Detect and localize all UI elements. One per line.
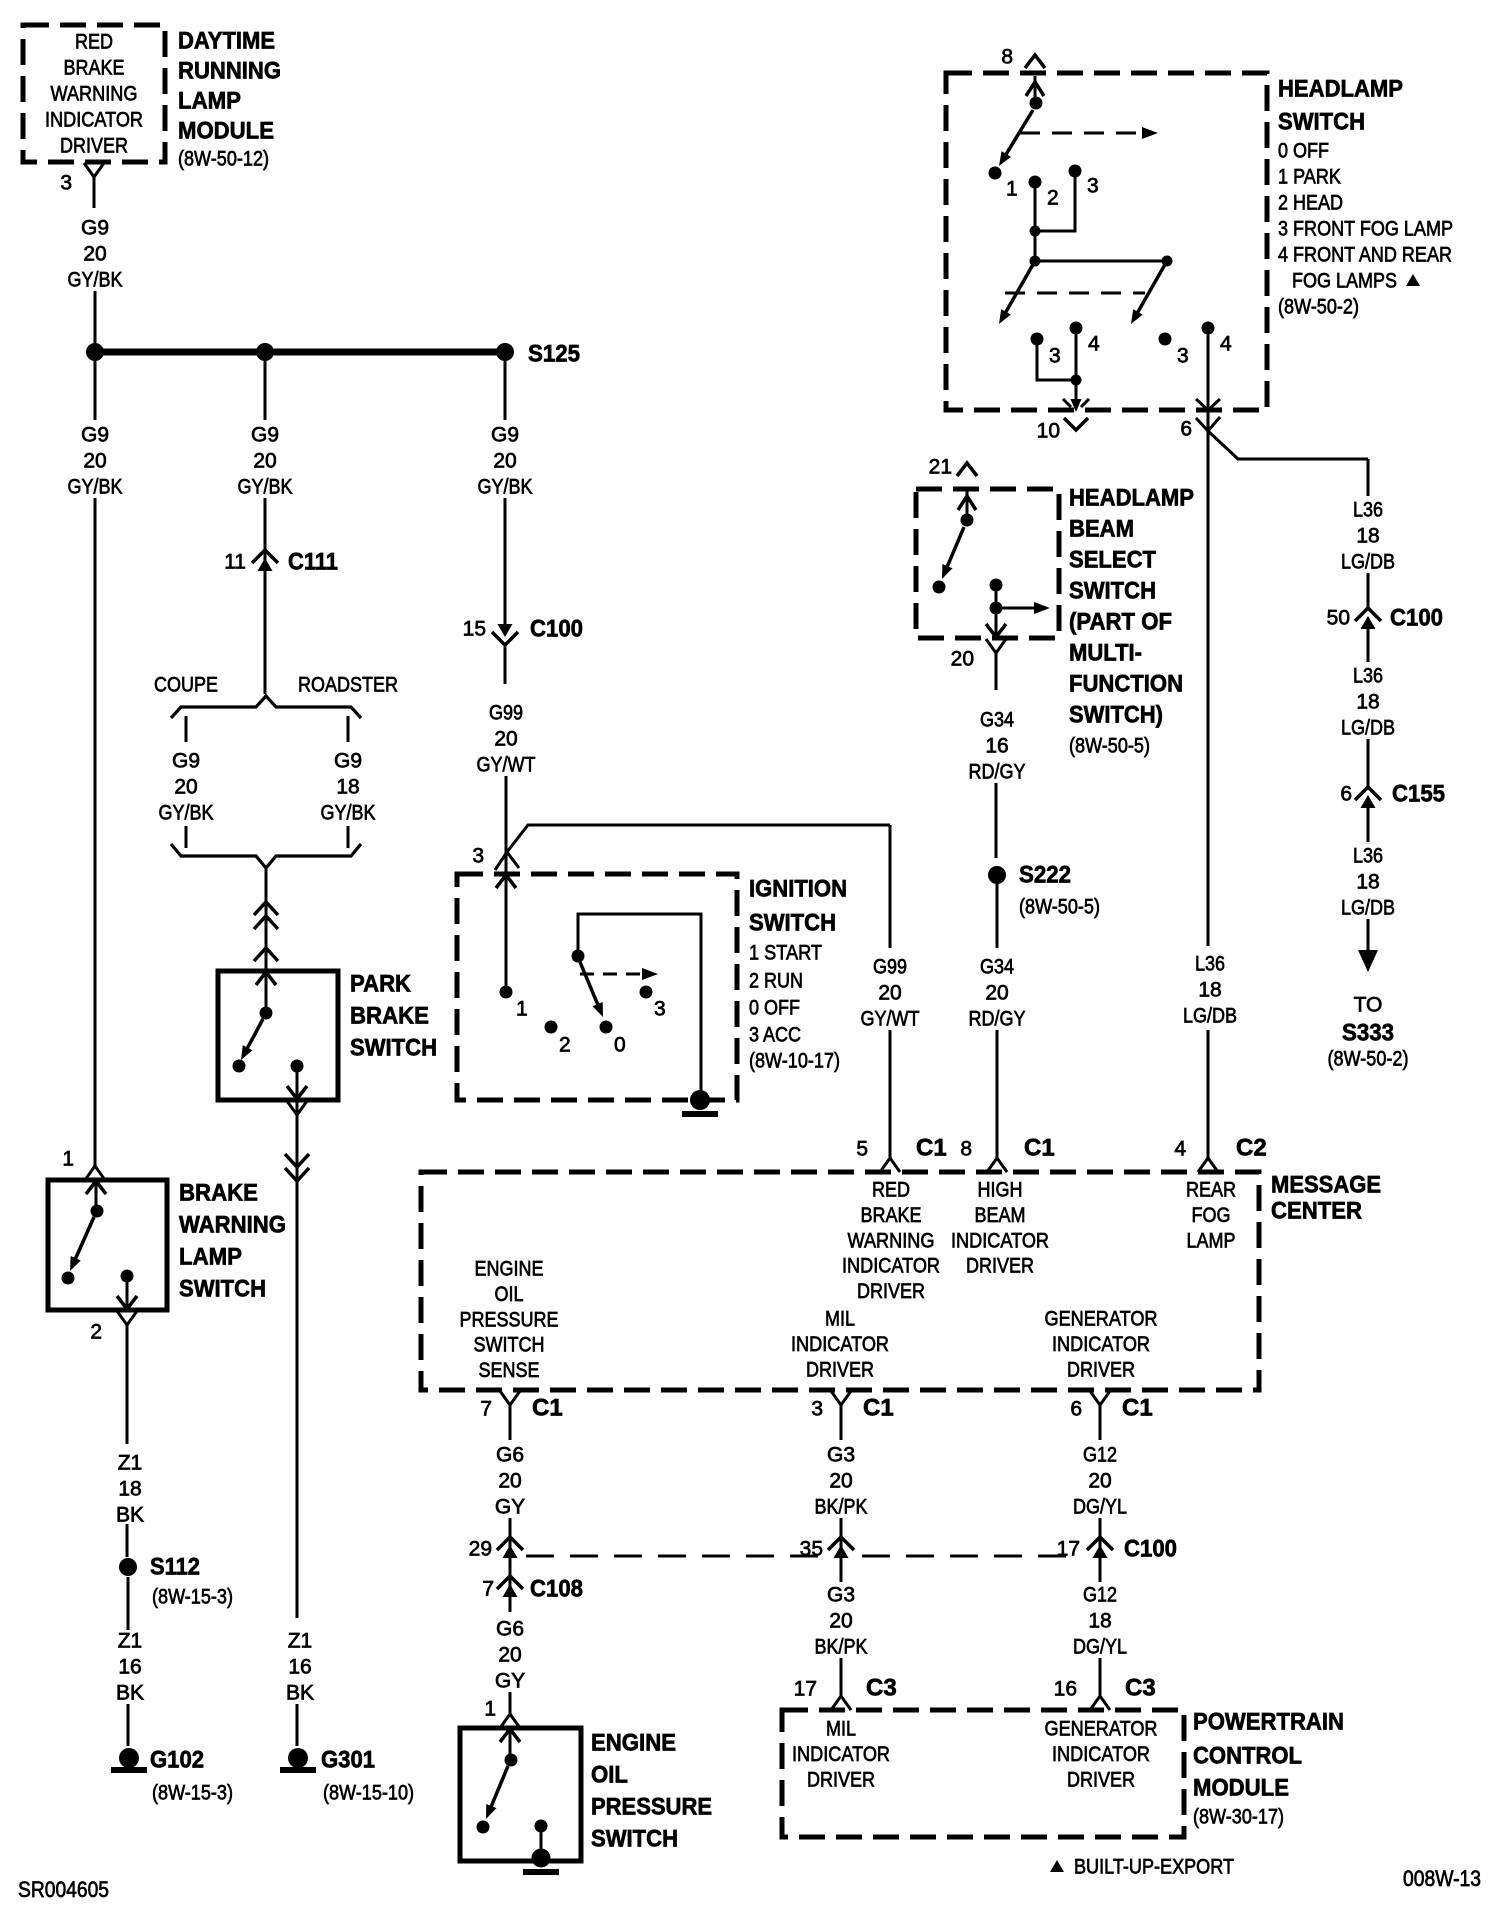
svg-text:18: 18 xyxy=(1088,1610,1111,1633)
svg-text:BEAM: BEAM xyxy=(1069,516,1134,543)
svg-text:SELECT: SELECT xyxy=(1069,547,1156,574)
svg-text:MODULE: MODULE xyxy=(1193,1775,1289,1802)
svg-text:G9: G9 xyxy=(81,217,109,240)
svg-text:MULTI-: MULTI- xyxy=(1069,640,1142,667)
svg-text:29: 29 xyxy=(469,1538,492,1561)
svg-text:Z1: Z1 xyxy=(118,1452,143,1475)
svg-text:BUILT-UP-EXPORT: BUILT-UP-EXPORT xyxy=(1074,1856,1234,1879)
svg-text:2: 2 xyxy=(90,1321,102,1344)
svg-text:G6: G6 xyxy=(496,1618,524,1641)
svg-text:TO: TO xyxy=(1354,994,1383,1017)
svg-text:RD/GY: RD/GY xyxy=(969,1008,1026,1031)
svg-text:DG/YL: DG/YL xyxy=(1073,1496,1127,1519)
svg-text:CONTROL: CONTROL xyxy=(1193,1743,1302,1770)
svg-text:OIL: OIL xyxy=(591,1762,628,1789)
svg-text:(8W-30-17): (8W-30-17) xyxy=(1193,1806,1284,1829)
svg-text:C100: C100 xyxy=(530,616,583,643)
svg-text:DRIVER: DRIVER xyxy=(806,1358,874,1381)
svg-text:8: 8 xyxy=(1001,46,1013,69)
svg-text:REAR: REAR xyxy=(1186,1179,1236,1202)
svg-text:18: 18 xyxy=(1198,979,1221,1002)
svg-text:20: 20 xyxy=(83,450,106,473)
svg-text:PARK: PARK xyxy=(350,971,412,998)
svg-text:POWERTRAIN: POWERTRAIN xyxy=(1193,1709,1344,1736)
svg-text:10: 10 xyxy=(1037,420,1060,443)
svg-text:C100: C100 xyxy=(1390,605,1443,632)
svg-text:LG/DB: LG/DB xyxy=(1341,551,1395,574)
svg-text:WARNING: WARNING xyxy=(51,83,138,106)
svg-text:GY/WT: GY/WT xyxy=(477,754,536,777)
svg-text:GY/BK: GY/BK xyxy=(321,802,376,825)
svg-text:(8W-50-5): (8W-50-5) xyxy=(1019,896,1100,919)
svg-text:1: 1 xyxy=(516,998,528,1021)
svg-text:2: 2 xyxy=(1047,187,1059,210)
svg-text:INDICATOR: INDICATOR xyxy=(791,1333,889,1356)
svg-text:FOG LAMPS: FOG LAMPS xyxy=(1292,270,1397,293)
svg-text:RD/GY: RD/GY xyxy=(969,761,1026,784)
svg-text:G34: G34 xyxy=(980,956,1014,979)
svg-text:BRAKE: BRAKE xyxy=(350,1003,429,1030)
svg-text:(8W-50-5): (8W-50-5) xyxy=(1069,735,1150,758)
svg-text:DRIVER: DRIVER xyxy=(1067,1768,1135,1791)
svg-text:C155: C155 xyxy=(1392,781,1445,808)
svg-text:20: 20 xyxy=(829,1470,852,1493)
svg-text:DRIVER: DRIVER xyxy=(857,1280,925,1303)
svg-text:(8W-15-3): (8W-15-3) xyxy=(152,1782,233,1805)
svg-text:1 PARK: 1 PARK xyxy=(1278,166,1341,189)
svg-text:4: 4 xyxy=(1088,333,1100,356)
svg-text:20: 20 xyxy=(498,1470,521,1493)
svg-text:C1: C1 xyxy=(1024,1135,1055,1162)
svg-text:DRIVER: DRIVER xyxy=(807,1768,875,1791)
svg-text:GY: GY xyxy=(495,1670,525,1693)
svg-text:5: 5 xyxy=(856,1138,868,1161)
svg-text:SENSE: SENSE xyxy=(479,1359,540,1382)
svg-text:21: 21 xyxy=(929,456,952,479)
svg-text:18: 18 xyxy=(1356,525,1379,548)
svg-text:16: 16 xyxy=(1054,1678,1077,1701)
svg-text:3 ACC: 3 ACC xyxy=(749,1024,801,1047)
svg-text:18: 18 xyxy=(1356,871,1379,894)
svg-text:S222: S222 xyxy=(1019,862,1071,889)
svg-text:G99: G99 xyxy=(489,702,523,725)
svg-text:PRESSURE: PRESSURE xyxy=(591,1794,712,1821)
svg-text:DG/YL: DG/YL xyxy=(1073,1636,1127,1659)
svg-text:(8W-50-2): (8W-50-2) xyxy=(1328,1048,1409,1071)
svg-text:17: 17 xyxy=(794,1678,817,1701)
svg-text:G3: G3 xyxy=(827,1444,855,1467)
svg-text:C1: C1 xyxy=(1122,1395,1153,1422)
svg-text:4 FRONT AND REAR: 4 FRONT AND REAR xyxy=(1278,244,1452,267)
svg-text:MIL: MIL xyxy=(826,1718,856,1741)
svg-text:GENERATOR: GENERATOR xyxy=(1045,1308,1158,1331)
svg-text:1: 1 xyxy=(1006,178,1018,201)
svg-text:INDICATOR: INDICATOR xyxy=(792,1743,890,1766)
svg-text:IGNITION: IGNITION xyxy=(749,876,847,903)
svg-text:20: 20 xyxy=(83,243,106,266)
svg-text:LAMP: LAMP xyxy=(179,1244,242,1271)
svg-text:DRIVER: DRIVER xyxy=(966,1255,1034,1278)
svg-text:1: 1 xyxy=(62,1148,74,1171)
svg-text:G102: G102 xyxy=(150,1747,204,1774)
svg-text:ENGINE: ENGINE xyxy=(475,1258,544,1281)
svg-text:4: 4 xyxy=(1220,333,1232,356)
svg-text:SWITCH: SWITCH xyxy=(350,1035,437,1062)
svg-text:C1: C1 xyxy=(532,1395,563,1422)
svg-text:18: 18 xyxy=(1356,691,1379,714)
svg-text:DAYTIME: DAYTIME xyxy=(178,28,275,55)
svg-text:SR004605: SR004605 xyxy=(18,1877,109,1902)
svg-text:LAMP: LAMP xyxy=(178,88,241,115)
svg-text:G301: G301 xyxy=(321,1747,375,1774)
svg-text:FUNCTION: FUNCTION xyxy=(1069,671,1183,698)
svg-text:(8W-50-12): (8W-50-12) xyxy=(178,148,269,171)
svg-text:LG/DB: LG/DB xyxy=(1341,897,1395,920)
svg-text:SWITCH): SWITCH) xyxy=(1069,702,1163,729)
svg-text:3 FRONT FOG LAMP: 3 FRONT FOG LAMP xyxy=(1278,218,1453,241)
svg-text:C111: C111 xyxy=(288,549,338,576)
svg-text:HEADLAMP: HEADLAMP xyxy=(1278,76,1403,103)
svg-text:BK/PK: BK/PK xyxy=(815,1496,868,1519)
svg-text:DRIVER: DRIVER xyxy=(60,135,128,158)
svg-text:11: 11 xyxy=(224,551,246,574)
svg-text:4: 4 xyxy=(1174,1138,1186,1161)
svg-text:GY/BK: GY/BK xyxy=(68,269,123,292)
svg-text:6: 6 xyxy=(1180,418,1192,441)
svg-text:S125: S125 xyxy=(528,341,580,368)
svg-text:LG/DB: LG/DB xyxy=(1341,717,1395,740)
svg-text:008W-13: 008W-13 xyxy=(1403,1866,1481,1891)
svg-text:7: 7 xyxy=(480,1398,492,1421)
svg-text:L36: L36 xyxy=(1195,953,1225,976)
svg-text:DRIVER: DRIVER xyxy=(1067,1358,1135,1381)
svg-text:ROADSTER: ROADSTER xyxy=(298,674,398,697)
svg-text:3: 3 xyxy=(1177,345,1189,368)
svg-text:ENGINE: ENGINE xyxy=(591,1730,676,1757)
svg-text:PRESSURE: PRESSURE xyxy=(460,1308,559,1331)
svg-text:(PART OF: (PART OF xyxy=(1069,609,1172,636)
svg-text:2 HEAD: 2 HEAD xyxy=(1278,192,1343,215)
svg-text:20: 20 xyxy=(494,728,517,751)
svg-text:20: 20 xyxy=(498,1644,521,1667)
svg-text:GY: GY xyxy=(495,1496,525,1519)
svg-text:20: 20 xyxy=(878,982,901,1005)
svg-text:G12: G12 xyxy=(1083,1584,1117,1607)
svg-text:INDICATOR: INDICATOR xyxy=(1052,1333,1150,1356)
svg-text:18: 18 xyxy=(118,1478,141,1501)
svg-text:GY/BK: GY/BK xyxy=(478,476,533,499)
svg-text:15: 15 xyxy=(463,618,486,641)
svg-text:BRAKE: BRAKE xyxy=(64,57,125,80)
svg-text:20: 20 xyxy=(253,450,276,473)
svg-text:SWITCH: SWITCH xyxy=(474,1334,545,1357)
svg-text:(8W-50-2): (8W-50-2) xyxy=(1278,296,1359,319)
svg-text:20: 20 xyxy=(493,450,516,473)
svg-text:(8W-15-10): (8W-15-10) xyxy=(323,1782,414,1805)
svg-text:Z1: Z1 xyxy=(288,1630,313,1653)
svg-text:G12: G12 xyxy=(1083,1444,1117,1467)
svg-text:20: 20 xyxy=(951,648,974,671)
svg-text:INDICATOR: INDICATOR xyxy=(45,109,143,132)
svg-text:1: 1 xyxy=(484,1698,496,1721)
svg-text:G34: G34 xyxy=(980,709,1014,732)
svg-text:C100: C100 xyxy=(1124,1536,1177,1563)
svg-text:SWITCH: SWITCH xyxy=(1278,109,1365,136)
svg-text:BK: BK xyxy=(116,1504,144,1527)
svg-text:G9: G9 xyxy=(172,750,200,773)
svg-text:FOG: FOG xyxy=(1192,1204,1231,1227)
svg-text:C3: C3 xyxy=(866,1675,897,1702)
svg-text:SWITCH: SWITCH xyxy=(179,1276,266,1303)
svg-text:G9: G9 xyxy=(491,424,519,447)
svg-text:50: 50 xyxy=(1327,607,1350,630)
svg-text:C2: C2 xyxy=(1236,1135,1267,1162)
svg-text:BEAM: BEAM xyxy=(975,1204,1026,1227)
svg-text:INDICATOR: INDICATOR xyxy=(951,1229,1049,1252)
svg-text:G3: G3 xyxy=(827,1584,855,1607)
svg-text:17: 17 xyxy=(1057,1538,1080,1561)
svg-text:20: 20 xyxy=(985,982,1008,1005)
svg-text:0 OFF: 0 OFF xyxy=(749,997,800,1020)
svg-text:MESSAGE: MESSAGE xyxy=(1271,1172,1381,1199)
svg-text:3: 3 xyxy=(60,172,72,195)
svg-text:C1: C1 xyxy=(916,1135,947,1162)
svg-text:S333: S333 xyxy=(1342,1020,1394,1047)
svg-text:1 START: 1 START xyxy=(749,942,822,965)
svg-text:7: 7 xyxy=(482,1578,494,1601)
svg-text:G9: G9 xyxy=(334,750,362,773)
svg-text:GY/BK: GY/BK xyxy=(159,802,214,825)
svg-text:35: 35 xyxy=(800,1538,823,1561)
svg-text:OIL: OIL xyxy=(495,1283,524,1306)
svg-text:BRAKE: BRAKE xyxy=(861,1204,922,1227)
svg-text:HIGH: HIGH xyxy=(978,1179,1023,1202)
svg-text:MIL: MIL xyxy=(825,1308,855,1331)
svg-text:(8W-10-17): (8W-10-17) xyxy=(749,1050,840,1073)
svg-text:GENERATOR: GENERATOR xyxy=(1045,1718,1158,1741)
svg-text:GY/BK: GY/BK xyxy=(68,476,123,499)
svg-text:3: 3 xyxy=(654,998,666,1021)
svg-text:WARNING: WARNING xyxy=(179,1212,286,1239)
svg-text:20: 20 xyxy=(174,776,197,799)
svg-text:0 OFF: 0 OFF xyxy=(1278,140,1329,163)
svg-text:RED: RED xyxy=(872,1179,910,1202)
svg-text:SWITCH: SWITCH xyxy=(749,910,836,937)
svg-text:SWITCH: SWITCH xyxy=(591,1826,678,1853)
svg-text:C3: C3 xyxy=(1125,1675,1156,1702)
svg-text:S112: S112 xyxy=(150,1554,200,1581)
svg-text:MODULE: MODULE xyxy=(178,118,274,145)
svg-text:CENTER: CENTER xyxy=(1271,1198,1362,1225)
svg-text:G9: G9 xyxy=(251,424,279,447)
svg-text:L36: L36 xyxy=(1353,845,1383,868)
svg-text:BK: BK xyxy=(116,1682,144,1705)
svg-text:G6: G6 xyxy=(496,1444,524,1467)
svg-text:BK: BK xyxy=(286,1682,314,1705)
svg-text:GY/WT: GY/WT xyxy=(861,1008,920,1031)
svg-text:C1: C1 xyxy=(863,1395,894,1422)
svg-text:8: 8 xyxy=(960,1138,972,1161)
svg-text:HEADLAMP: HEADLAMP xyxy=(1069,485,1194,512)
svg-text:3: 3 xyxy=(1049,345,1061,368)
svg-text:Z1: Z1 xyxy=(118,1630,143,1653)
svg-text:LG/DB: LG/DB xyxy=(1183,1005,1237,1028)
svg-text:C108: C108 xyxy=(530,1576,583,1603)
svg-text:INDICATOR: INDICATOR xyxy=(1052,1743,1150,1766)
svg-text:RUNNING: RUNNING xyxy=(178,58,281,85)
svg-text:G9: G9 xyxy=(81,424,109,447)
svg-text:6: 6 xyxy=(1340,783,1352,806)
svg-text:BK/PK: BK/PK xyxy=(815,1636,868,1659)
svg-text:2 RUN: 2 RUN xyxy=(749,970,803,993)
svg-text:2: 2 xyxy=(559,1034,571,1057)
svg-text:INDICATOR: INDICATOR xyxy=(842,1255,940,1278)
svg-text:BRAKE: BRAKE xyxy=(179,1180,258,1207)
svg-text:RED: RED xyxy=(75,31,113,54)
svg-text:L36: L36 xyxy=(1353,499,1383,522)
svg-text:16: 16 xyxy=(118,1656,141,1679)
svg-text:3: 3 xyxy=(472,845,484,868)
svg-text:16: 16 xyxy=(288,1656,311,1679)
svg-text:18: 18 xyxy=(336,776,359,799)
svg-text:G99: G99 xyxy=(873,956,907,979)
svg-text:COUPE: COUPE xyxy=(154,674,218,697)
svg-text:GY/BK: GY/BK xyxy=(238,476,293,499)
svg-text:(8W-15-3): (8W-15-3) xyxy=(152,1586,233,1609)
svg-text:SWITCH: SWITCH xyxy=(1069,578,1156,605)
svg-text:LAMP: LAMP xyxy=(1187,1229,1236,1252)
svg-text:3: 3 xyxy=(811,1398,823,1421)
svg-text:0: 0 xyxy=(614,1034,626,1057)
svg-text:L36: L36 xyxy=(1353,665,1383,688)
svg-text:WARNING: WARNING xyxy=(848,1229,935,1252)
svg-text:6: 6 xyxy=(1070,1398,1082,1421)
svg-text:20: 20 xyxy=(1088,1470,1111,1493)
svg-text:16: 16 xyxy=(985,735,1008,758)
svg-text:20: 20 xyxy=(829,1610,852,1633)
svg-text:3: 3 xyxy=(1087,175,1099,198)
